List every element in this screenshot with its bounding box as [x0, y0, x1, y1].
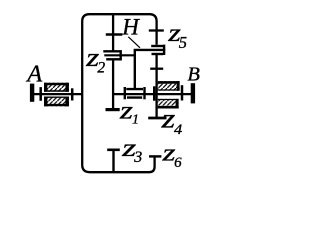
svg-text:2: 2 [97, 60, 105, 77]
svg-text:4: 4 [174, 122, 182, 138]
svg-text:3: 3 [133, 149, 142, 166]
svg-text:B: B [187, 64, 200, 86]
svg-text:5: 5 [179, 33, 187, 52]
svg-text:A: A [25, 61, 43, 88]
svg-text:1: 1 [132, 112, 139, 127]
svg-text:6: 6 [174, 155, 182, 171]
svg-text:H: H [121, 15, 140, 40]
